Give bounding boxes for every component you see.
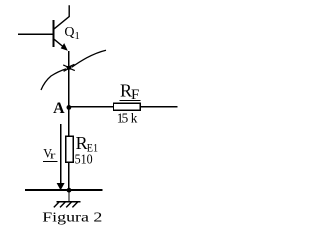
svg-text:Figura 2: Figura 2 — [42, 210, 102, 225]
break annotation: right curved arrow — [72, 50, 107, 67]
ground rail wire — [25, 189, 103, 191]
junction dot — [67, 188, 72, 193]
wire: node A to RF — [69, 106, 114, 108]
svg-text:Q: Q — [64, 25, 74, 40]
ground symbol — [54, 190, 81, 207]
resistor RE1 — [66, 136, 73, 162]
svg-text:r: r — [50, 150, 56, 162]
break junction blob — [67, 66, 71, 70]
transistor Q1 emitter arrowhead — [61, 43, 68, 51]
node A dot — [67, 105, 72, 110]
svg-text:1: 1 — [75, 31, 80, 42]
wire: RF to the right — [140, 106, 177, 108]
transistor Q1 emitter lead — [54, 39, 63, 47]
resistor RF — [113, 103, 140, 110]
transistor Q1 base bar — [52, 20, 54, 47]
svg-text:A: A — [53, 100, 65, 117]
wire: emitter down to resistor RE1 — [68, 51, 70, 136]
svg-text:15k: 15k — [117, 110, 138, 125]
Vr arrow — [60, 124, 62, 184]
break annotation: left curved arrow — [41, 69, 66, 90]
transistor Q1 base lead — [18, 33, 54, 35]
transistor Q1 collector lead — [54, 5, 69, 29]
svg-text:510: 510 — [75, 151, 93, 166]
wire: RE1 to ground rail — [68, 162, 70, 190]
